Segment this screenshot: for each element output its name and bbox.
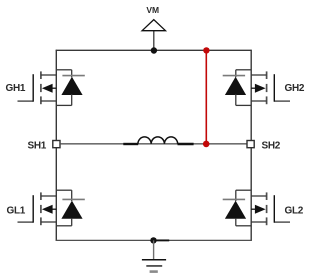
junction dot red on top rail — [203, 47, 209, 53]
transistor GH1 (high-side left NMOS with body diode) — [18, 70, 85, 106]
inductor L1 (motor winding) — [123, 137, 193, 144]
node SH2 (terminal square) — [247, 141, 254, 148]
transistor GL1 (low-side left NMOS with body diode) — [18, 190, 85, 226]
svg-text:SH1: SH1 — [28, 140, 47, 151]
wire bottom rail dark segment at ground junction — [154, 239, 170, 241]
wire top rail VM net — [56, 49, 252, 51]
power symbol VM — [142, 20, 165, 51]
wire left rail (GH1 drain / spine / GL1) — [55, 50, 57, 241]
transistor GH2 (high-side right NMOS with body diode) — [223, 70, 290, 106]
svg-text:GL1: GL1 — [7, 205, 26, 216]
svg-text:GH1: GH1 — [6, 83, 26, 94]
wire SH1 to SH2 (motor winding net) — [61, 143, 247, 145]
ground — [142, 240, 166, 271]
junction dot red on SH wire — [203, 141, 210, 148]
svg-text:GH2: GH2 — [285, 83, 305, 94]
junction dot ground on bottom rail — [150, 237, 156, 243]
svg-text:GL2: GL2 — [285, 205, 304, 216]
wire bottom rail GND net — [56, 239, 252, 241]
junction dot VM on top rail — [151, 47, 157, 53]
transistor GL2 (low-side right NMOS with body diode) — [223, 190, 290, 226]
svg-text:SH2: SH2 — [262, 140, 281, 151]
node SH1 (terminal square) — [53, 141, 60, 148]
svg-text:VM: VM — [146, 5, 159, 15]
wire red highlighted current path (top rail to SH2 wire) — [205, 50, 207, 144]
wire right rail (GH2 drain / spine / GL2) — [250, 50, 252, 241]
